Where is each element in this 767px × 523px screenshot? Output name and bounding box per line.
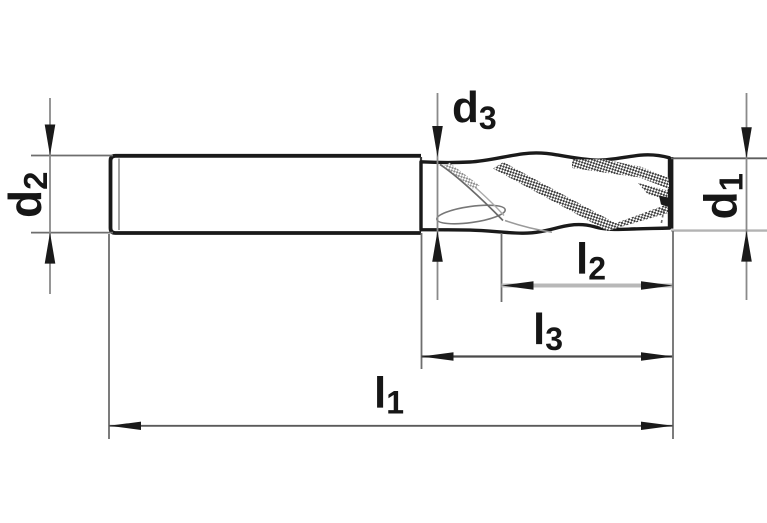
cutter right end edge bbox=[669, 157, 673, 229]
l3 left extension line bbox=[421, 233, 423, 369]
corner notch bbox=[659, 196, 673, 209]
d1 top extension line bbox=[671, 157, 767, 159]
d1 dimension line bbox=[746, 93, 748, 300]
l3 dimension line bbox=[422, 355, 674, 357]
flute secondary edge line bbox=[452, 169, 504, 216]
flute hatch band (bottom right) bbox=[607, 204, 668, 231]
l1 arrow right bbox=[641, 422, 673, 430]
flute hatch band (right upper) bbox=[572, 159, 670, 189]
l3 arrow right bbox=[641, 352, 673, 360]
l1/l2/l3 right extension line bbox=[672, 231, 674, 439]
flute runout lower curve bbox=[505, 221, 552, 233]
d2 bottom extension line bbox=[31, 232, 113, 234]
d3 arrow top bbox=[432, 126, 443, 157]
d2 arrow top bbox=[45, 125, 56, 156]
l1 dimension line bbox=[109, 425, 673, 427]
shank (cylindrical body) bbox=[111, 156, 422, 233]
l2 dimension line bbox=[502, 284, 674, 288]
d2 arrow bottom bbox=[45, 233, 56, 264]
flute hatch band (main) bbox=[493, 162, 618, 231]
d3 arrow bottom bbox=[432, 231, 443, 262]
shank left chamfer line bbox=[118, 159, 120, 231]
flute hatch band (right mid) bbox=[638, 183, 668, 200]
l2 left extension line bbox=[501, 233, 503, 302]
shank/cutter junction line bbox=[420, 157, 422, 232]
d1 arrow top bbox=[741, 127, 752, 158]
d2 top extension line bbox=[31, 155, 113, 157]
d2 dimension line bbox=[49, 98, 51, 294]
d1 arrow bottom bbox=[741, 231, 752, 262]
l1 left extension line bbox=[108, 234, 110, 439]
d1 bottom extension line bbox=[671, 229, 767, 231]
l2 arrow right bbox=[641, 281, 673, 289]
flute edge line bbox=[440, 165, 503, 221]
cutter body silhouette bbox=[421, 153, 670, 233]
l3 arrow left bbox=[422, 352, 454, 360]
l2 arrow left bbox=[502, 281, 534, 289]
flute runout ellipse bbox=[436, 202, 507, 227]
l1 arrow left bbox=[109, 422, 141, 430]
d3 dimension line bbox=[437, 93, 439, 300]
flute hatch band (left, light) bbox=[444, 163, 480, 190]
notch tail marks bbox=[661, 209, 664, 225]
